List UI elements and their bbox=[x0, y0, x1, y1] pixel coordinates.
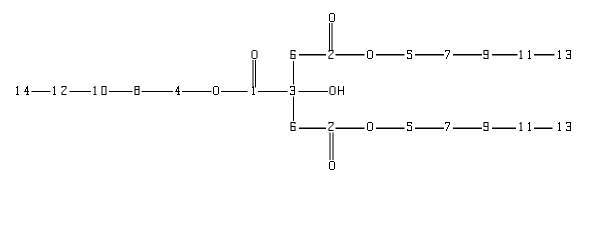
atom 6 upper bbox=[290, 50, 295, 59]
atom 6 lower bbox=[290, 122, 295, 131]
wire bond 5-7 lower bbox=[415, 128, 444, 129]
double bond C1=O bbox=[252, 60, 253, 88]
atom 13 upper bbox=[558, 50, 571, 59]
atom 14 bbox=[16, 86, 29, 95]
wire bond 2-O upper bbox=[335, 54, 364, 55]
wire bond 3-OH bbox=[299, 91, 328, 92]
atom 5 upper bbox=[407, 50, 412, 59]
wire bond 12-10 bbox=[70, 91, 91, 92]
wire bond 7-9 lower bbox=[453, 128, 482, 129]
wire bond 9-11 upper bbox=[492, 54, 517, 55]
atom O carbonyl of C1 bbox=[252, 50, 258, 59]
wire bond O-5 upper bbox=[376, 54, 404, 55]
atom 10 bbox=[93, 86, 106, 95]
atom 2 lower bbox=[329, 122, 334, 131]
wire bond 4-O bbox=[182, 91, 212, 92]
atom 13 lower bbox=[558, 122, 571, 131]
atom O carbonyl of C2 upper bbox=[329, 13, 335, 22]
atom 8 bbox=[135, 86, 140, 95]
atom 7 upper bbox=[445, 50, 450, 59]
wire bond 6-2 upper bbox=[299, 54, 326, 55]
atom 9 lower bbox=[484, 122, 489, 131]
atom 7 lower bbox=[445, 122, 450, 131]
wire bond 11-13 upper bbox=[534, 54, 555, 55]
wire bond 1-3 bbox=[258, 91, 287, 92]
wire bond O-5 lower bbox=[376, 128, 404, 129]
atom 4 bbox=[175, 86, 180, 95]
atom 12 bbox=[53, 86, 66, 95]
double bond C2=O lower bbox=[330, 132, 331, 160]
atom 3 bbox=[290, 86, 295, 95]
wire bond 3-6 upper vertical bbox=[293, 61, 294, 84]
wire bond 10-8 bbox=[109, 91, 133, 92]
wire bond 14-12 bbox=[32, 91, 51, 92]
wire bond 2-O lower bbox=[335, 128, 364, 129]
wire bond 11-13 lower bbox=[534, 128, 553, 129]
atom O ester main bbox=[213, 86, 219, 95]
atom 1 bbox=[252, 86, 255, 95]
wire bond 8-4 bbox=[142, 91, 173, 92]
atom 11 lower bbox=[519, 122, 531, 131]
atom 9 upper bbox=[484, 50, 489, 59]
wire bond 3-6 lower vertical bbox=[293, 97, 294, 121]
wire bond 7-9 upper bbox=[453, 54, 482, 55]
atom 11 upper bbox=[519, 50, 531, 59]
atom O ester lower bbox=[367, 122, 373, 131]
wire bond 9-11 lower bbox=[492, 128, 516, 129]
atom O carbonyl of C2 lower bbox=[329, 161, 335, 170]
double bond C2=O upper bbox=[329, 23, 330, 50]
atom 2 upper bbox=[329, 50, 334, 59]
atom 5 lower bbox=[407, 122, 412, 131]
wire bond 5-7 upper bbox=[415, 54, 444, 55]
wire bond 6-2 lower bbox=[299, 128, 326, 129]
atom OH bbox=[330, 86, 344, 95]
wire bond O-1 bbox=[221, 91, 248, 92]
atom O ester upper bbox=[367, 50, 373, 59]
